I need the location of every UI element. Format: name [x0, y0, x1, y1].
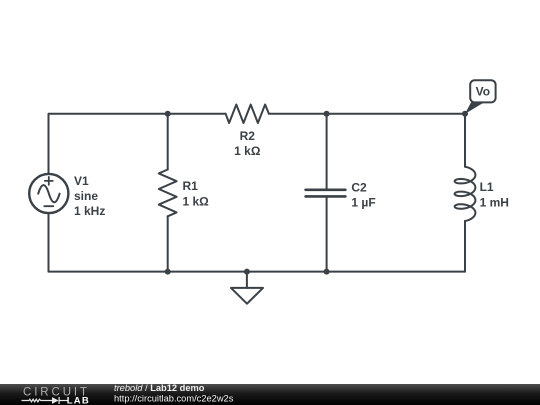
node Vo pointer — [465, 102, 484, 114]
wire C2 bottom — [326, 197, 328, 272]
svg-text:trebold / Lab12 demo: trebold / Lab12 demo — [114, 383, 205, 393]
svg-text:LAB: LAB — [67, 395, 90, 405]
wire L1 bottom — [464, 221, 466, 272]
wire R1 bottom — [167, 216, 169, 271]
junction ground — [244, 269, 250, 275]
V1 minus sign — [44, 205, 53, 207]
ground — [231, 272, 263, 304]
V1 sine symbol — [38, 185, 59, 202]
svg-text:http://circuitlab.com/c2e2w2s: http://circuitlab.com/c2e2w2s — [114, 394, 234, 404]
logo schematic line — [22, 397, 69, 404]
wire bottom rail — [49, 271, 466, 273]
svg-text:sine: sine — [74, 189, 98, 203]
svg-text:C2: C2 — [351, 180, 367, 194]
node Vo junction — [462, 111, 468, 117]
source V1 — [29, 174, 68, 213]
svg-text:1 µF: 1 µF — [351, 195, 375, 209]
wire R1 top — [167, 114, 169, 170]
svg-text:L1: L1 — [480, 180, 494, 194]
wire left rail bottom (V1 to bottom rail) — [48, 213, 50, 271]
junction R1 top — [165, 111, 171, 117]
V1 plus sign — [45, 177, 53, 185]
wire top rail right (R2 to Vo node) — [269, 113, 465, 115]
wire top rail left (V1 to R2) — [49, 114, 226, 174]
svg-text:V1: V1 — [74, 174, 89, 188]
resistor R2 — [226, 105, 269, 124]
capacitor C2 — [306, 190, 346, 197]
svg-text:1 mH: 1 mH — [480, 196, 509, 210]
svg-text:1 kHz: 1 kHz — [74, 204, 105, 218]
svg-text:R2: R2 — [240, 129, 256, 143]
svg-text:R1: R1 — [183, 179, 199, 193]
svg-text:Vo: Vo — [476, 85, 490, 99]
wire C2 top — [326, 114, 328, 190]
footer bar — [0, 384, 540, 405]
resistor R1 — [159, 170, 177, 217]
junction R1 bottom — [165, 269, 171, 275]
logo diode triangle — [52, 397, 59, 404]
wire L1 top — [464, 114, 466, 167]
inductor L1 — [455, 167, 476, 221]
junction C2 bottom — [324, 269, 330, 275]
svg-text:1 kΩ: 1 kΩ — [234, 144, 261, 158]
junction C2 top — [324, 111, 330, 117]
svg-text:1 kΩ: 1 kΩ — [183, 195, 210, 209]
node Vo flag box — [470, 80, 495, 102]
